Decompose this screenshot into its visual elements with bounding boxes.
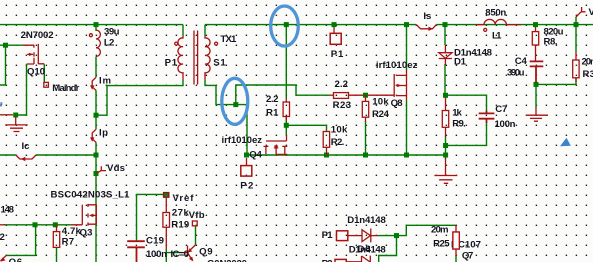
svg-text:G0N2020: G0N2020: [207, 258, 247, 262]
transistor Q4: [264, 135, 288, 154]
wire R24 bottom lead: [365, 121, 367, 155]
svg-text:R19: R19: [171, 220, 189, 231]
wire bottom left edge red: [0, 224, 5, 226]
svg-text:IC=0: IC=0: [171, 249, 190, 260]
wire C7 bottom net: [446, 123, 487, 146]
resistor R24: [362, 95, 368, 121]
probe Ic: [16, 155, 36, 159]
phase dot L2: [89, 34, 92, 37]
svg-text:390u: 390u: [507, 68, 525, 79]
ellipse annotation mid: [222, 78, 248, 124]
terminal Vfb: [192, 221, 197, 226]
svg-text:2: 2: [0, 232, 5, 243]
svg-text:Q7: Q7: [462, 250, 474, 261]
svg-text:Q3: Q3: [80, 228, 93, 239]
node D1 bus junction: [443, 22, 448, 27]
wire R7 bottom lead: [56, 248, 58, 262]
svg-text:irf1010ez: irf1010ez: [222, 135, 263, 146]
wire Q3 drain column: [95, 155, 97, 262]
resistor R9: [442, 98, 448, 138]
svg-text:irf1010ez: irf1010ez: [376, 60, 418, 71]
svg-text:S1: S1: [213, 58, 226, 69]
svg-text:100n: 100n: [495, 119, 516, 130]
svg-text:Q8: Q8: [391, 98, 404, 109]
transistor Q9: [182, 245, 196, 262]
transistor Q10: [23, 44, 44, 64]
svg-text:Is: Is: [423, 11, 431, 22]
wire P1 D6 net: [379, 235, 397, 237]
transistor Q6 stub: [0, 255, 6, 261]
node R30 bus junction: [574, 22, 579, 27]
node R23 junction: [363, 93, 368, 98]
svg-text:1k: 1k: [452, 108, 462, 119]
node R2 junction: [324, 153, 329, 158]
svg-text:C4: C4: [515, 56, 528, 67]
svg-text:Q6: Q6: [9, 257, 23, 262]
svg-text:R7: R7: [62, 236, 75, 247]
terminal Vref: [163, 192, 170, 198]
probe Im: [92, 77, 96, 90]
capacitor C4: [530, 61, 544, 82]
node P1 bus junction: [332, 22, 337, 27]
node C4 bottom junction: [534, 82, 539, 87]
node gate junction: [3, 43, 8, 48]
node ellipse junction: [233, 102, 238, 107]
wire left edge red stub: [0, 114, 13, 116]
wire C7 top net: [446, 95, 487, 111]
wire top bus left: [0, 24, 183, 26]
svg-text:Im: Im: [99, 76, 111, 87]
resistor R25: [453, 225, 459, 256]
svg-text:39u: 39u: [104, 26, 120, 37]
svg-text:Maindr: Maindr: [52, 83, 79, 94]
svg-text:2.2: 2.2: [335, 79, 349, 90]
wire Q8 column: [406, 25, 408, 155]
svg-text:Q9: Q9: [199, 247, 213, 258]
wire secondary top pin: [204, 25, 206, 36]
transistor Q3: [71, 204, 96, 226]
ground left: [5, 117, 27, 132]
diode D6: [362, 229, 379, 243]
svg-text:R1: R1: [266, 108, 279, 119]
wire R9 mid column: [445, 137, 447, 160]
svg-text:D1: D1: [454, 57, 467, 68]
node Q4 source junction: [244, 153, 249, 158]
node R7 junction: [53, 222, 58, 227]
svg-text:C7: C7: [495, 104, 507, 115]
svg-text:TX1: TX1: [220, 34, 237, 45]
wire primary top pin: [182, 25, 184, 36]
svg-text:L1: L1: [492, 31, 502, 42]
svg-text:850n: 850n: [485, 8, 506, 19]
probe Vds: [97, 166, 106, 173]
svg-text:R8.: R8.: [544, 37, 558, 48]
wire source bus: [247, 154, 446, 156]
wire Vfb column: [195, 226, 197, 245]
wire Maindr stub: [43, 64, 45, 82]
wire bottom left gate net: [4, 224, 71, 226]
wire D1 column: [444, 25, 446, 96]
probe Im arrowhead: [90, 85, 94, 89]
svg-text:Vout: Vout: [589, 7, 593, 18]
svg-text:2.2: 2.2: [266, 94, 279, 105]
node R9 top junction: [443, 93, 448, 98]
node Ic junction: [94, 153, 99, 158]
transformer TX1 secondary coil: [205, 36, 210, 80]
transformer TX1 primary coil: [178, 36, 183, 80]
svg-text:Q4: Q4: [249, 149, 262, 160]
resistor R1: [283, 99, 289, 122]
svg-text:R25: R25: [433, 239, 450, 250]
wire Vref net: [137, 194, 164, 240]
probe Vout: [576, 7, 586, 17]
resistor R23: [330, 93, 395, 99]
probe Ip: [92, 129, 96, 142]
svg-text:20m: 20m: [582, 57, 593, 68]
wire R19 bottom node: [166, 249, 182, 262]
svg-text:Q10: Q10: [27, 67, 45, 78]
svg-text:P2: P2: [322, 258, 333, 262]
ellipse annotation top: [271, 6, 299, 46]
wire sec node up branch: [236, 85, 330, 105]
inductor L1: [476, 19, 521, 24]
wire secondary bottom net: [205, 80, 247, 155]
ground mid: [434, 158, 457, 183]
probe P2 bottom: [335, 259, 362, 262]
svg-text:Ic: Ic: [22, 141, 31, 152]
svg-text:10k: 10k: [331, 124, 348, 135]
wire R25 net: [379, 225, 456, 262]
resistor R25 body overlay: [453, 232, 459, 249]
node R24 junction: [363, 153, 368, 158]
svg-text:R30: R30: [583, 69, 593, 80]
svg-text:Ip: Ip: [99, 128, 108, 139]
node L2 bus junction: [94, 22, 99, 27]
wire left ground net: [16, 64, 27, 115]
resistor R19: [163, 198, 170, 250]
svg-text:27k: 27k: [172, 208, 190, 219]
svg-text:R23: R23: [333, 100, 352, 111]
phase dot S1: [215, 42, 218, 45]
probe Ic arrowhead: [21, 157, 26, 161]
resistor R7: [53, 225, 59, 248]
wire C4 bottom net: [536, 78, 576, 108]
capacitor C19: [127, 241, 145, 262]
wire top bus right: [205, 24, 593, 26]
wire primary bottom return: [96, 80, 183, 115]
node Q8 source junction: [404, 153, 409, 158]
svg-text:P1: P1: [322, 230, 334, 241]
probe Is: [416, 25, 436, 29]
wire Q6 branch: [6, 225, 35, 256]
svg-text:R24: R24: [372, 109, 390, 120]
node R1 bottom junction: [284, 123, 289, 128]
svg-text:20m: 20m: [431, 225, 449, 236]
node R1 top bus junction: [284, 22, 289, 27]
node R9 ground junction: [443, 153, 448, 158]
node Q6 junction: [33, 222, 38, 227]
probe Ip arrowhead: [90, 137, 94, 141]
svg-text:R2.: R2.: [331, 137, 345, 148]
diode D7 bottom: [362, 256, 371, 262]
svg-text:P1: P1: [331, 49, 344, 60]
svg-text:R9.: R9.: [452, 119, 466, 130]
svg-text:100n: 100n: [146, 249, 167, 260]
ground right: [526, 108, 548, 122]
wire R30 top lead: [575, 25, 577, 52]
svg-text:L2: L2: [104, 37, 115, 48]
node ground junction: [13, 113, 18, 118]
svg-text:C19: C19: [146, 236, 164, 247]
svg-text:D6: D6: [358, 244, 371, 255]
node D6 junction: [394, 233, 399, 238]
svg-text:Vds: Vds: [107, 163, 125, 174]
probe P1 bottom: [337, 231, 363, 241]
cursor triangle: [560, 138, 571, 146]
probe P1 top: [330, 27, 341, 44]
terminal Maindr: [44, 82, 49, 87]
probe Is arrowhead: [429, 27, 434, 31]
capacitor C7: [479, 111, 495, 124]
blue edge glyph: [0, 103, 2, 106]
inductor L2: [96, 30, 100, 56]
svg-text:10k: 10k: [372, 96, 389, 107]
diode D1: [439, 45, 452, 65]
node Q8 bus junction: [404, 22, 409, 27]
svg-text:D1n4148: D1n4148: [347, 215, 386, 226]
node C7 bottom junction: [443, 143, 448, 148]
transistor Q8: [394, 70, 406, 100]
phase dot L1: [484, 28, 487, 31]
node R8 bus junction: [533, 22, 538, 27]
wire Ic net: [0, 154, 96, 156]
svg-text:148: 148: [1, 204, 15, 215]
wire L2 column: [95, 25, 97, 155]
svg-text:Vfb: Vfb: [189, 210, 205, 221]
wire R25 bottom lead: [455, 255, 457, 262]
svg-text:2N7002: 2N7002: [21, 30, 54, 41]
svg-text:Vref: Vref: [173, 193, 195, 204]
node Vds junction: [94, 171, 99, 176]
resistor R2: [323, 132, 329, 156]
phase dot P1: [175, 42, 178, 45]
resistor R8: [532, 27, 538, 61]
wire R1 column: [285, 25, 287, 135]
probe P2: [241, 158, 252, 176]
wire Q10 gate net: [0, 45, 23, 85]
resistor R30: [573, 52, 579, 82]
svg-text:BSC042N03S_L1: BSC042N03S_L1: [51, 190, 131, 201]
wire R1 to R2: [286, 125, 326, 131]
node Im return junction: [94, 113, 99, 118]
transformer TX1 core: [194, 31, 198, 85]
svg-text:P1: P1: [165, 58, 178, 69]
